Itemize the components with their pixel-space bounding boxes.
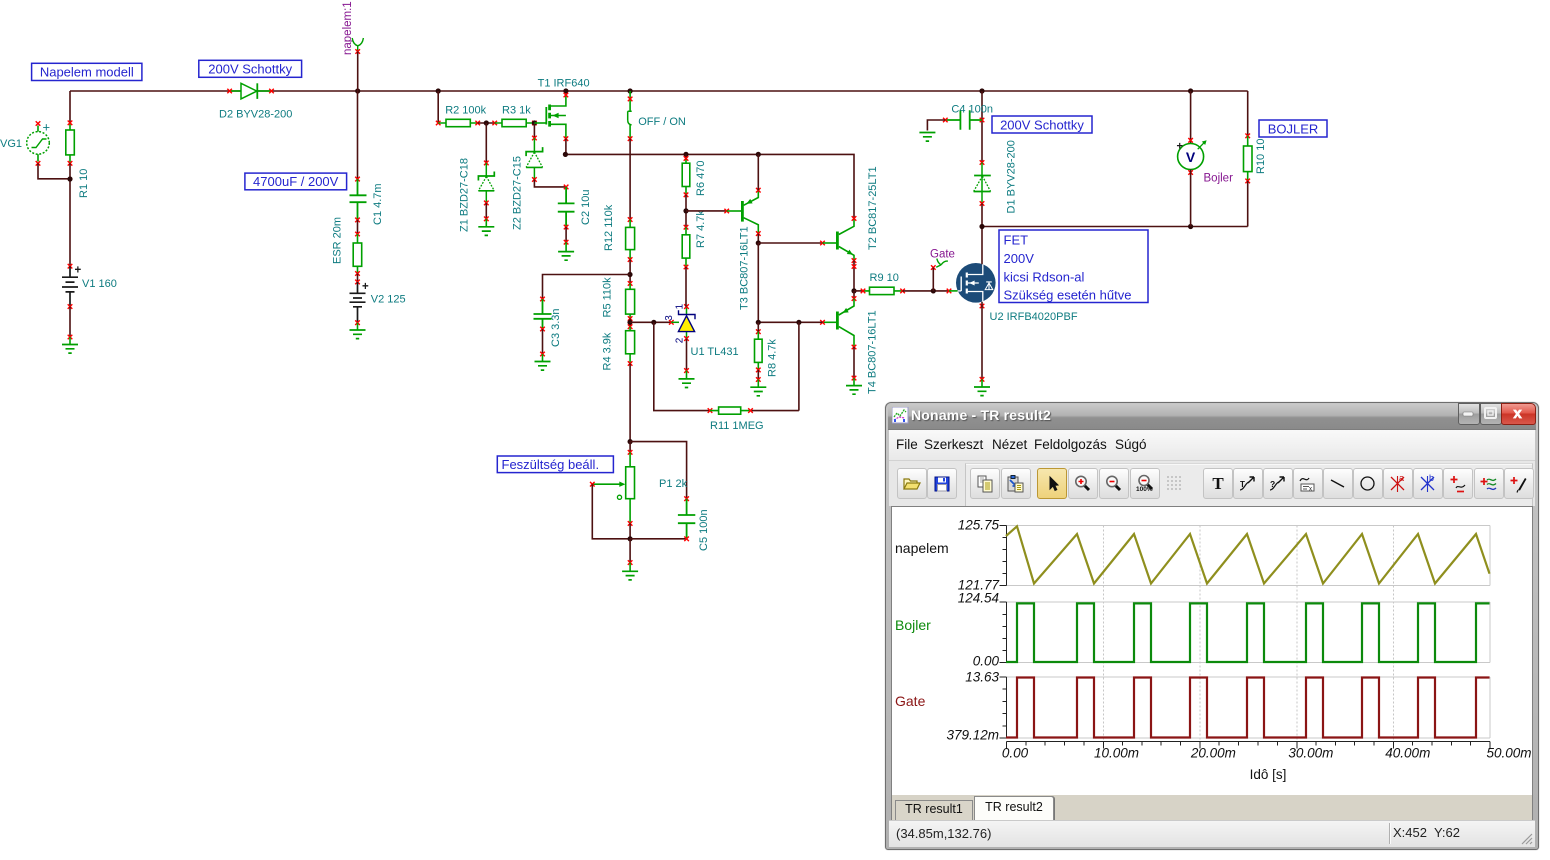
pin R3 right (532, 121, 537, 126)
svg-text:C5 100n: C5 100n (698, 509, 710, 551)
svg-text:BOJLER: BOJLER (1268, 121, 1319, 136)
svg-text:R5 110k: R5 110k (602, 277, 614, 318)
pin R8 ground (756, 377, 761, 382)
node dot gate antenna junction (931, 288, 936, 293)
pin switch bottom (628, 136, 633, 141)
pin T3 base (724, 209, 729, 214)
pin T2 emitter (852, 258, 857, 263)
pin R8 top (756, 329, 761, 334)
text box 200V Schottky (right) (992, 116, 1092, 133)
antenna symbol Gate node (936, 259, 948, 268)
toolbar button: text (1203, 468, 1233, 499)
pin R2 right (475, 121, 480, 126)
svg-text:R8 4.7k: R8 4.7k (767, 339, 779, 377)
pin V1 plus (68, 264, 73, 269)
pin C1 bottom (355, 218, 360, 223)
wire R11 net (654, 322, 799, 410)
pin D2 cathode (269, 89, 274, 94)
pin T3 emitter (756, 188, 761, 193)
svg-text:1: 1 (674, 304, 685, 310)
svg-text:Gate: Gate (930, 249, 955, 261)
zener Z1 (478, 163, 494, 203)
toolbar (889, 461, 1535, 506)
pin VG1 plus (36, 121, 41, 126)
pin P1 wiper (590, 482, 595, 487)
node dot top rail at R2 branch (436, 88, 441, 93)
pin C3 bottom (540, 327, 545, 332)
subplot frame lines (1007, 526, 1491, 739)
wire V1 minus to ground (69, 307, 71, 337)
pin R10 top (1245, 134, 1250, 139)
pin wire mid T2 emitter (852, 264, 857, 269)
wire T1 source down (565, 139, 567, 155)
pin C2 ground (564, 240, 569, 245)
wire Z1 branch (485, 123, 487, 163)
window title bar (888, 404, 1536, 430)
wire T3 collector down (757, 234, 759, 243)
pin C5 bottom (684, 537, 689, 542)
resistor R10 (1244, 136, 1253, 181)
toolbar button: process curve ? (1263, 468, 1293, 499)
pin C2 bottom (564, 225, 569, 230)
wire napelem antenna to rail (357, 52, 359, 92)
svg-text:napelem: napelem (895, 540, 949, 556)
wire C2 to ground (565, 227, 567, 242)
y axes (1000, 526, 1007, 739)
svg-text:+: + (75, 265, 82, 277)
node dot R8/T4 base junction (756, 320, 761, 325)
svg-text:V1 160: V1 160 (82, 278, 117, 290)
resistor R8 (755, 322, 763, 370)
pin P1 top (628, 450, 633, 455)
shunt regulator U1 TL431 (671, 307, 695, 339)
svg-text:R2 100k: R2 100k (445, 105, 486, 117)
svg-text:200V Schottky: 200V Schottky (208, 62, 292, 77)
pin Z2 cathode (532, 136, 537, 141)
pin ground V1 (68, 335, 73, 340)
resistor R11 (710, 407, 751, 414)
wire T4 emitter to junction (853, 291, 855, 299)
wire P1 bottom to rail (629, 523, 631, 538)
svg-text:FET: FET (1004, 233, 1029, 248)
wire T4 base net (758, 243, 822, 322)
svg-text:Bojler: Bojler (895, 617, 931, 633)
svg-text:V2 125: V2 125 (371, 294, 406, 306)
node dot rail3 at voltmeter (1188, 224, 1193, 229)
pin V2 plus (355, 280, 360, 285)
svg-text:?: ? (1270, 479, 1275, 489)
curve napelem (1006, 526, 1490, 583)
wire P1 junction to C5 (630, 442, 687, 499)
pin C2 top (564, 185, 569, 190)
wire R12 to R5 junction (629, 260, 631, 284)
capacitor C2 (558, 187, 575, 227)
pin V2 minus (355, 320, 360, 325)
x axis labels (1002, 746, 1532, 761)
wire bottom rail to ground (629, 539, 631, 563)
pin Z2 anode (532, 177, 537, 182)
svg-text:T: T (1240, 480, 1245, 489)
pin Z1 anode (484, 201, 489, 206)
ground under C3 (535, 354, 551, 370)
pin U2 gate (947, 289, 952, 294)
ground under P1 (622, 563, 638, 580)
svg-text:R4 3.9k: R4 3.9k (602, 332, 614, 370)
wire voltmeter bottom (1190, 170, 1192, 227)
resistor R6 (682, 154, 690, 194)
pin R4 bottom (628, 361, 633, 366)
pin VG1 minus (36, 161, 41, 166)
pin R1 bottom (68, 161, 73, 166)
resistor R5 (626, 283, 635, 318)
x axis (1007, 742, 1491, 749)
wire T3 emitter to rail2 (757, 154, 759, 190)
pin R3 left (492, 121, 497, 126)
svg-text:+: + (43, 120, 51, 135)
antenna symbol napelem node (352, 38, 363, 51)
node dot Z1 junction (484, 120, 489, 125)
text box Feszultseg beall (497, 456, 613, 473)
svg-text:C2 10u: C2 10u (580, 190, 592, 225)
toolbar button: zoom out (1099, 468, 1129, 499)
wire U2 drain to rail3 (981, 227, 983, 265)
pin T4 collector ground (852, 376, 857, 381)
node dot rail2 at T1 (563, 152, 568, 157)
capacitor C3 (534, 299, 552, 329)
svg-text:Idô [s]: Idô [s] (1250, 767, 1287, 782)
wire C1 to ESR (357, 220, 359, 234)
resistor R7 (682, 227, 690, 267)
pin C3 top (540, 297, 545, 302)
capacitor C4 (945, 110, 982, 129)
diode D1 (974, 163, 991, 204)
wire Z1 to ground (485, 203, 487, 219)
node dot R12/R5/C3 junction (627, 272, 632, 277)
node dot R5/R4/U1 junction (627, 320, 632, 325)
switch OFF/ON (628, 91, 632, 139)
svg-text:T4 BC807-16LT1: T4 BC807-16LT1 (867, 310, 879, 394)
wire T3 base (686, 210, 727, 212)
node dot R11 riser right (796, 320, 801, 325)
wire Z2 branch (533, 123, 535, 138)
toolbar button: cursor (active) (1037, 468, 1067, 499)
node dot Z2 junction (532, 120, 537, 125)
svg-text:kicsi Rdson-al: kicsi Rdson-al (1004, 270, 1085, 285)
svg-text:13.63: 13.63 (965, 669, 999, 684)
wire U1 anode to ground (686, 339, 688, 371)
ground under C2 (558, 242, 574, 260)
resistor ESR (353, 234, 362, 274)
wire T4 collector to ground (853, 347, 855, 378)
text box FET note (999, 230, 1148, 303)
svg-text:C4 100n: C4 100n (951, 104, 993, 116)
wire voltmeter top (1190, 91, 1192, 144)
node dot bottom rail (628, 536, 633, 541)
wire: top rail napelem net (70, 90, 1248, 92)
svg-text:10.00m: 10.00m (1094, 746, 1139, 761)
svg-text:+: + (1177, 141, 1183, 153)
toolbar button: add/sub curves (1443, 468, 1473, 499)
text box 200V Schottky (left) (199, 60, 302, 77)
pin U1 ground (684, 368, 689, 373)
wire U1 ref net (630, 321, 671, 323)
wire P1 wiper to bottom rail (592, 484, 630, 539)
pin T2 base (820, 241, 825, 246)
maximize button (1480, 403, 1502, 425)
svg-text:379.12m: 379.12m (946, 728, 999, 743)
potentiometer P1 (592, 452, 634, 523)
wire R8 to ground (757, 370, 759, 380)
transistor T3 BC807 (727, 190, 759, 233)
pin T4 emitter (852, 296, 857, 301)
toolbar button: grid (disabled) (1160, 468, 1188, 497)
pin R12 bottom (628, 257, 633, 262)
voltmeter Bojler (1177, 140, 1207, 169)
mosfet U2 IRFB4020PBF (949, 263, 996, 303)
node dot R6/R7/T3 base (683, 208, 688, 213)
pin T4 base (820, 320, 825, 325)
pin Z1 ground (484, 217, 489, 222)
svg-text:x: x (1513, 405, 1522, 422)
node dot rail2 at T3 emitter (756, 152, 761, 157)
wire R10 bottom to rail3 (1247, 181, 1249, 227)
ground under V1 (62, 337, 78, 353)
minimize button (1458, 403, 1480, 425)
capacitor C1 (350, 179, 367, 220)
svg-text:R1 10: R1 10 (78, 169, 90, 198)
toolbar button: add pen (1504, 468, 1534, 499)
svg-text:Gate: Gate (895, 693, 926, 709)
ground under C4 (919, 133, 935, 142)
resistor R12 (626, 220, 635, 260)
pin C4 left (943, 118, 948, 123)
text box BOJLER (1259, 120, 1327, 137)
svg-text:124.54: 124.54 (958, 591, 999, 606)
battery V1 (62, 266, 78, 306)
node dot top rail at D1 (979, 88, 984, 93)
svg-text:Bojler: Bojler (1204, 173, 1234, 185)
ground under R8 (750, 380, 766, 396)
toolbar button: add waves (1474, 468, 1504, 499)
zener Z2 (526, 138, 543, 180)
toolbar button: paste (1001, 468, 1031, 499)
wire D1 anode to rail3 (981, 204, 983, 227)
pin T1 source (564, 136, 569, 141)
svg-text:R7 4.7k: R7 4.7k (695, 210, 707, 248)
resistor R9 (854, 287, 903, 294)
svg-text:OFF / ON: OFF / ON (638, 116, 686, 128)
wire rail2 T1 source to T2 collector (565, 154, 854, 218)
pin T4 collector (852, 345, 857, 350)
svg-text:R12 110k: R12 110k (603, 204, 615, 251)
transistor T2 BC817 (823, 218, 855, 260)
diode D2 (230, 83, 272, 99)
node dot P1 top junction (628, 439, 633, 444)
svg-text:3: 3 (664, 315, 675, 321)
pin R5 top (628, 281, 633, 286)
resistor R1 (66, 91, 75, 163)
window icon (892, 407, 909, 424)
curve Bojler (1006, 603, 1490, 662)
pin R6 bottom (684, 193, 689, 198)
svg-text:T2 BC817-25LT1: T2 BC817-25LT1 (867, 166, 879, 250)
node dot rail2 at R6 (683, 152, 688, 157)
svg-text:Feszültség beáll.: Feszültség beáll. (502, 457, 600, 472)
plot client area (891, 506, 1533, 796)
svg-text:b: b (1429, 474, 1434, 483)
pin R10 bottom (1245, 179, 1250, 184)
wire rail to C1 (357, 91, 359, 179)
svg-text:50.00m: 50.00m (1486, 746, 1531, 761)
svg-text:0.00: 0.00 (1002, 746, 1029, 761)
plot vertical dashed gridlines (1103, 526, 1393, 742)
toolbar button: save (927, 468, 957, 499)
pin P1 bottom (628, 521, 633, 526)
wire bottom rail to C5 (630, 538, 687, 540)
pin voltmeter plus (1188, 138, 1193, 143)
svg-text:2: 2 (674, 337, 685, 343)
toolbar button: process curve a (1233, 468, 1263, 499)
svg-text:V: V (1186, 149, 1196, 165)
node dot top rail at voltmeter (1188, 88, 1193, 93)
pin D1 anode (980, 201, 985, 206)
svg-text:Napelem modell: Napelem modell (40, 65, 134, 80)
tab bar (891, 795, 1533, 820)
svg-text:T: T (1212, 474, 1224, 493)
pin ESR bottom (355, 271, 360, 276)
ground under V2 (350, 323, 366, 339)
toolbar button: copy (970, 468, 1000, 499)
wire junction to C3 (543, 275, 631, 300)
wire R2 to R3 (478, 122, 495, 124)
text box 4700uF / 200V (245, 173, 347, 190)
wire C4 to ground (927, 120, 945, 131)
pin R11 left (708, 408, 713, 413)
svg-text:0.00: 0.00 (973, 654, 1000, 669)
transistor T4 BC807 (823, 299, 855, 347)
node dot top rail at napelem tap (355, 88, 360, 93)
wire D1 branch (981, 91, 983, 163)
resistor R2 (438, 119, 478, 126)
svg-text:+: + (362, 281, 369, 293)
pin U1 ref (669, 320, 674, 325)
pin R2 left (436, 121, 441, 126)
wire rail to R2 (437, 91, 439, 123)
wire VG1 minus to R1 bottom (38, 163, 70, 179)
pin D1 cathode (980, 160, 985, 165)
svg-text:100%: 100% (1136, 486, 1153, 493)
pin R12 top (628, 217, 633, 222)
toolbar button: cursor b (1413, 468, 1443, 499)
wire R1 bottom to V1 (69, 163, 71, 266)
toolbar button: open (897, 468, 927, 499)
svg-text:R3 1k: R3 1k (502, 105, 531, 117)
svg-text:125.75: 125.75 (958, 518, 1000, 533)
svg-text:T3 BC807-16LT1: T3 BC807-16LT1 (739, 226, 751, 310)
wire Z2 anode to C2 top (534, 180, 566, 187)
wire C3 to ground (542, 329, 544, 354)
pin T1 drain (564, 93, 569, 98)
battery V2 (350, 282, 366, 323)
svg-text:R10 10: R10 10 (1255, 139, 1267, 174)
mosfet T1 IRF640 (534, 96, 566, 139)
menu bar (889, 430, 1535, 461)
resistor R3 (495, 119, 535, 126)
svg-text:C3 3.3n: C3 3.3n (550, 308, 562, 347)
pin R6 top (684, 156, 689, 161)
toolbar button: legend (1293, 468, 1323, 499)
pin R5 bottom (628, 316, 633, 321)
wire Gate antenna to gate wire (932, 268, 934, 291)
voltage generator VG1 (27, 120, 50, 162)
wire ESR to V2 (357, 274, 359, 282)
wire T2 emitter to R9 junction (853, 261, 855, 291)
svg-text:D1 BYV28-200: D1 BYV28-200 (1006, 140, 1018, 213)
wire R7 to U1 cathode (685, 267, 687, 307)
pin switch top (628, 97, 633, 102)
svg-text:Szükség esetén hűtve: Szükség esetén hűtve (1004, 288, 1132, 303)
wire R10 top (1247, 91, 1249, 136)
pin U1 cathode (684, 304, 689, 309)
toolbar button: circle (1353, 468, 1383, 499)
wire P1 top (629, 442, 631, 453)
wire R4 to P1 junction (629, 364, 631, 442)
resistor R4 (626, 327, 635, 364)
svg-text:napelem:1: napelem:1 (342, 1, 354, 55)
svg-text:VG1: VG1 (0, 138, 22, 150)
svg-text:R11 1MEG: R11 1MEG (710, 420, 764, 432)
pin V1 minus (68, 304, 73, 309)
node dot top rail at T1 drain (563, 88, 568, 93)
text box Napelem modell (32, 63, 142, 80)
ground under Z1 (478, 219, 494, 236)
node dot top rail at switch (628, 88, 633, 93)
curve Gate (1006, 678, 1490, 738)
pin napelem antenna (355, 49, 360, 54)
svg-text:Z2 BZD27-C15: Z2 BZD27-C15 (512, 156, 524, 230)
pin T2 collector (852, 216, 857, 221)
svg-text:U1 TL431: U1 TL431 (691, 346, 739, 358)
svg-text:a: a (1399, 474, 1404, 483)
toolbar button: line (1323, 468, 1353, 499)
ground under U1 (679, 371, 695, 388)
node dot rail3 at U2 (979, 224, 984, 229)
svg-text:P1 2k: P1 2k (659, 478, 688, 490)
status bar (889, 820, 1535, 847)
pin voltmeter minus (1188, 170, 1193, 175)
pin C4 right (980, 118, 985, 123)
wire switch to R12 (629, 139, 631, 220)
svg-text:Z1 BZD27-C18: Z1 BZD27-C18 (459, 158, 471, 232)
toolbar button: zoom in (1068, 468, 1098, 499)
svg-text:D2 BYV28-200: D2 BYV28-200 (219, 109, 292, 121)
close button (1501, 403, 1536, 425)
pin ESR top (355, 232, 360, 237)
wire T2 base (758, 242, 822, 244)
node dot R1/VG1 junction (67, 176, 72, 181)
pin U1 anode (684, 336, 689, 341)
node dot T3 collector junction (756, 240, 761, 245)
ground under U2 (974, 379, 990, 395)
svg-text:200V: 200V (1004, 251, 1035, 266)
pin R7 bottom (684, 265, 689, 270)
svg-text:4700uF / 200V: 4700uF / 200V (253, 174, 339, 189)
pin C1 top (355, 177, 360, 182)
toolbar button: zoom 100% (1130, 468, 1160, 499)
pin ground P1 (628, 560, 633, 565)
svg-text:T1 IRF640: T1 IRF640 (538, 78, 590, 90)
pin C5 top (684, 496, 689, 501)
